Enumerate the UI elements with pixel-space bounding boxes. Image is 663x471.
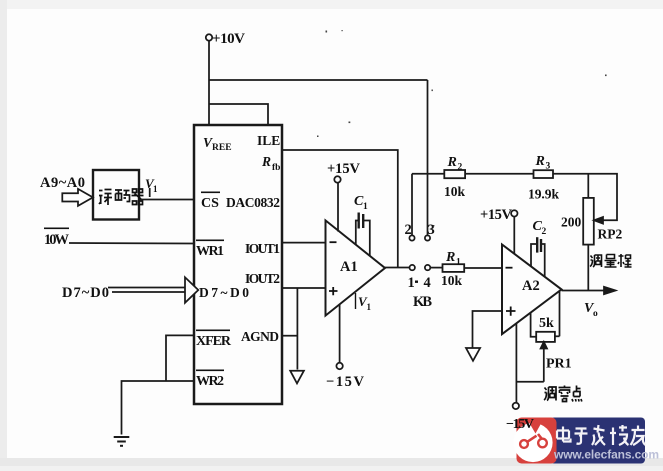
- wire IOUT1 to A1: [282, 242, 326, 244]
- svg-text:−15V: −15V: [506, 417, 534, 432]
- svg-text:REE: REE: [212, 143, 232, 153]
- capacitor C1: [358, 213, 360, 229]
- ground symbol bottom-left: [114, 436, 130, 438]
- A1 +15V terminal: [334, 176, 340, 182]
- svg-text:KB: KB: [413, 294, 432, 310]
- svg-text:10W: 10W: [44, 232, 70, 248]
- block arrow A9~A0 (hollow): [62, 189, 93, 206]
- wire +15V to A2: [513, 217, 515, 254]
- resistor R3: [534, 170, 554, 178]
- char 点: [572, 386, 582, 402]
- char 译: [99, 190, 112, 206]
- char 码: [115, 190, 130, 202]
- potentiometer RP2: [583, 198, 594, 245]
- svg-text:IOUT1: IOUT1: [245, 241, 280, 256]
- wire terminal2 up to R2 line: [411, 174, 413, 236]
- watermark red block: [517, 418, 557, 464]
- op-amp A2: [502, 245, 562, 335]
- svg-text:CS: CS: [201, 196, 219, 211]
- bus arrow D7~D0 shaft: [108, 287, 185, 289]
- svg-text:+15V: +15V: [327, 161, 361, 177]
- +10V terminal: [206, 34, 212, 40]
- wire R2 lead: [412, 173, 444, 175]
- A1 -15V terminal: [336, 363, 342, 369]
- svg-text:R: R: [535, 154, 545, 169]
- svg-text:R: R: [261, 154, 271, 169]
- wire IOW to WR1: [69, 242, 194, 245]
- svg-text:o: o: [593, 309, 598, 319]
- svg-text:D7~D0: D7~D0: [199, 285, 249, 300]
- 电: [557, 427, 571, 442]
- char 零: [559, 386, 571, 402]
- DAC0832 box U1: [194, 125, 282, 404]
- scan edge bottom: [0, 458, 663, 471]
- svg-text:2: 2: [542, 227, 547, 237]
- ground A2 + (hollow): [466, 348, 480, 361]
- wire decoder to CS: [139, 199, 194, 201]
- svg-text:www.elecfans.com: www.elecfans.com: [553, 448, 659, 462]
- svg-text:3: 3: [546, 162, 551, 172]
- wire AGND: [282, 335, 297, 337]
- wire A2 to -15V: [515, 323, 517, 402]
- op-amp A1: [326, 220, 386, 315]
- svg-text:5k: 5k: [539, 316, 554, 331]
- svg-text:R: R: [447, 155, 457, 170]
- svg-text:AGND: AGND: [241, 329, 279, 344]
- char 器: [132, 189, 144, 205]
- svg-text:A9~A0: A9~A0: [40, 175, 85, 191]
- wire ILE branch: [209, 104, 268, 125]
- wire A2 + input: [473, 311, 503, 348]
- svg-text:ILE: ILE: [257, 133, 280, 148]
- svg-text:A2: A2: [522, 278, 540, 294]
- svg-text:+10V: +10V: [212, 31, 245, 47]
- wire RP2 top lead: [587, 174, 589, 198]
- svg-text:4: 4: [424, 275, 431, 291]
- svg-text:A1: A1: [340, 259, 358, 275]
- wire A2 output down to 5k: [559, 291, 561, 337]
- scan edge left: [0, 0, 7, 471]
- scan edge top: [0, 0, 663, 9]
- Vo arrowhead: [604, 287, 616, 294]
- wire Rfb feedback: [282, 150, 398, 268]
- ground symbol A1 + (hollow): [290, 371, 304, 384]
- RP2 wiper arrowhead: [594, 217, 603, 224]
- wire -15V to PR1 wiper: [516, 381, 543, 383]
- 发: [592, 425, 605, 445]
- svg-text:10k: 10k: [444, 184, 465, 199]
- svg-text:+15V: +15V: [480, 207, 513, 223]
- wire down to terminal 3: [427, 80, 429, 235]
- A2 -15V terminal: [513, 403, 519, 409]
- wire A1 out to KB 1: [384, 267, 409, 269]
- switch KB terminal 4: [425, 265, 430, 270]
- svg-text:2: 2: [405, 222, 412, 238]
- scan specks: [317, 30, 607, 226]
- resistor 5k PR1 body: [536, 332, 555, 342]
- 烧: [610, 425, 629, 445]
- wire A2 output Vo: [562, 290, 607, 292]
- svg-text:WR1: WR1: [196, 244, 224, 259]
- A2 minus sign: [506, 267, 513, 269]
- char 调: [590, 255, 602, 267]
- resistor R2: [444, 170, 465, 178]
- watermark logo wedge: [527, 419, 544, 434]
- A2 +15V terminal: [511, 210, 517, 216]
- svg-text:1: 1: [363, 202, 368, 212]
- svg-text:IOUT2: IOUT2: [245, 271, 280, 286]
- 友: [631, 426, 646, 446]
- PR1 wiper line: [543, 345, 545, 382]
- wire +10V horizontal to switch 3: [209, 79, 428, 81]
- switch KB terminal 2: [409, 235, 414, 240]
- wire +15V to A1: [337, 183, 339, 232]
- svg-text:XFER: XFER: [196, 334, 232, 349]
- svg-text:3: 3: [428, 222, 435, 238]
- wire XFER: [166, 335, 194, 381]
- svg-text:RP2: RP2: [598, 227, 623, 242]
- watermark logo pads and trace: [520, 434, 547, 448]
- svg-text:fb: fb: [272, 163, 280, 173]
- wire IOUT2 to A1 +: [282, 287, 326, 289]
- svg-text:D7~D0: D7~D0: [62, 285, 109, 301]
- decoder box: [93, 170, 139, 220]
- watermark navy box: [550, 418, 645, 464]
- svg-text:1: 1: [408, 275, 415, 291]
- wire AGND down to ground: [296, 288, 298, 370]
- PR1 wiper arrowhead: [541, 342, 547, 349]
- resistor R1: [443, 264, 465, 272]
- 子: [575, 429, 588, 444]
- svg-text:1: 1: [153, 184, 158, 194]
- wire 5k right lead: [555, 335, 560, 337]
- svg-text:1: 1: [367, 302, 372, 312]
- wire A1 to -15V: [339, 305, 341, 363]
- svg-text:2: 2: [458, 163, 463, 173]
- wire WR2 to ground: [122, 381, 195, 435]
- svg-text:R: R: [445, 250, 455, 265]
- label V1 inside A1: [355, 293, 357, 309]
- svg-text:−15V: −15V: [326, 374, 365, 390]
- svg-text:DAC0832: DAC0832: [226, 195, 280, 210]
- watermark logo disc: [513, 423, 552, 462]
- char 量: [605, 255, 617, 268]
- wire R3 to RP2 wiper loop: [553, 174, 617, 221]
- char 调: [544, 387, 556, 401]
- switch KB terminal 1: [410, 265, 415, 270]
- switch KB terminal 3: [425, 235, 430, 240]
- wire 5k left lead to A2 edge: [531, 312, 537, 336]
- char 程: [618, 254, 632, 267]
- svg-text:WR2: WR2: [196, 374, 224, 389]
- A1 plus sign: [329, 287, 338, 295]
- wire R2 to R3: [465, 173, 533, 175]
- wire RP2 bottom to output: [587, 245, 589, 291]
- svg-text:10k: 10k: [441, 273, 462, 288]
- node V1 tick: [149, 188, 151, 197]
- svg-text:PR1: PR1: [546, 357, 572, 372]
- bus arrow D7~D0 head (hollow): [185, 277, 198, 303]
- capacitor C2: [536, 237, 538, 252]
- svg-text:200: 200: [561, 215, 582, 230]
- wire +10V down to VREF pin: [208, 41, 210, 125]
- svg-text:1: 1: [456, 258, 461, 268]
- wire terminal4 to R1: [430, 267, 442, 269]
- A1 minus sign: [330, 241, 337, 243]
- wire R1 to A2 -: [464, 267, 502, 269]
- svg-text:19.9k: 19.9k: [528, 187, 559, 202]
- watermark text 电子发烧友 (drawn strokes): [557, 425, 646, 445]
- A2 plus sign: [506, 307, 516, 316]
